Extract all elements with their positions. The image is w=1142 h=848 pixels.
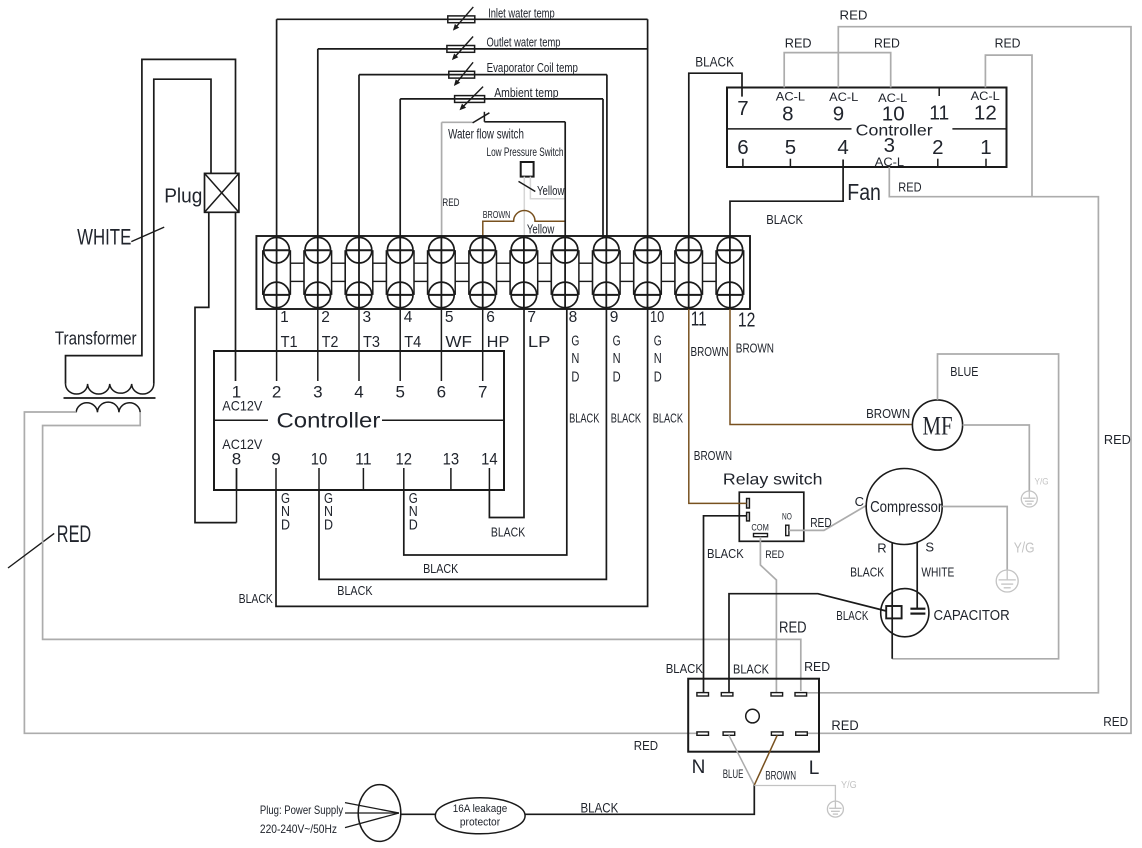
wire controller pin 10 to terminal 9 (black): [319, 309, 606, 579]
wire inner loop: transformer primary right to plug: [154, 79, 211, 384]
wire controller pin 12 to terminal 8 (black): [404, 309, 567, 555]
terminal 5: [428, 236, 456, 309]
wire MF top (blue) loop to capacitor: [892, 354, 1058, 659]
svg-text:G: G: [571, 333, 579, 349]
svg-text:BLACK: BLACK: [766, 212, 803, 227]
svg-text:D: D: [654, 369, 662, 385]
wire U2 pin 8 to pin 10 jumper (red): [784, 53, 891, 88]
link terminal 2-3: [332, 262, 346, 264]
svg-text:AC-L: AC-L: [776, 89, 805, 103]
GND labels on controller pins 9 10 12: [281, 491, 418, 533]
sensor RT1 inlet water temp: [277, 5, 648, 30]
svg-text:BLACK: BLACK: [581, 800, 619, 815]
svg-text:WHITE: WHITE: [921, 564, 954, 579]
ground G3 (power cord): [827, 801, 843, 817]
terminal 4: [386, 236, 414, 309]
svg-text:BROWN: BROWN: [483, 209, 511, 221]
svg-text:N: N: [654, 351, 662, 367]
GND labels under terminals 8 9 10: [571, 333, 661, 385]
power terminal block TB2 (N-L): [688, 679, 819, 779]
wire controller-2 pin 7 to terminal 11 (black): [689, 73, 742, 236]
TB2 bottom pin at 802: [796, 732, 808, 735]
wire terminal 11 to relay coil (brown): [689, 309, 747, 503]
svg-text:N: N: [571, 351, 579, 367]
wire sensor 4 return to terminal 9: [602, 99, 604, 238]
leakage protector F1: [435, 798, 525, 834]
svg-text:protector: protector: [460, 817, 501, 829]
svg-text:AC-L: AC-L: [971, 89, 1000, 103]
compressor M2: [866, 469, 943, 545]
wire capacitor to N-L top pin 2 (black): [729, 594, 886, 693]
relay K1 coil terminal 2: [747, 512, 750, 521]
svg-text:6: 6: [486, 309, 495, 326]
svg-text:Y/G: Y/G: [1014, 540, 1035, 556]
svg-text:G: G: [613, 333, 621, 349]
controller U1 top pin numbers 1-7: [232, 382, 488, 401]
svg-text:3: 3: [884, 134, 895, 157]
svg-text:BLACK: BLACK: [653, 412, 684, 426]
svg-text:T3: T3: [363, 334, 380, 351]
terminal 11: [675, 236, 703, 309]
power supply plug P2: [260, 785, 401, 842]
svg-text:8: 8: [569, 309, 578, 326]
wire sensor returns to terminal 10: [647, 19, 649, 236]
controller U1 bottom pin stubs: [237, 468, 490, 490]
svg-text:BLACK: BLACK: [707, 546, 744, 561]
transformer core: [64, 397, 156, 399]
svg-text:CAPACITOR: CAPACITOR: [934, 607, 1010, 624]
TB2 bottom pin at 729: [723, 732, 735, 735]
svg-text:BLACK: BLACK: [239, 592, 274, 606]
svg-text:T4: T4: [404, 334, 421, 351]
wire relay COM to N-L top pin 3 (red): [760, 537, 776, 693]
wire LP switch lead to terminal 7 (yellow): [523, 177, 525, 237]
svg-text:12: 12: [974, 102, 997, 125]
svg-text:Inlet water temp: Inlet water temp: [488, 5, 555, 20]
svg-text:Plug: Plug: [164, 184, 202, 207]
svg-text:10: 10: [311, 450, 328, 469]
svg-text:10: 10: [882, 103, 905, 126]
svg-text:BLUE: BLUE: [950, 364, 978, 379]
terminal numbers 1-12: [280, 308, 755, 332]
link terminal 3-4: [373, 262, 387, 264]
controller U1 top pin wires from terminals 1-6: [277, 309, 483, 381]
wire U2 pin 12 (red) to AC-L rail: [985, 55, 1032, 197]
link terminal 1-2: [290, 262, 304, 264]
wire U2 pin 3 AC-L (red) to N-L top pin 4: [807, 167, 1099, 693]
svg-text:BLACK: BLACK: [836, 608, 868, 623]
wire controller-2 pin 4 Fan to terminal 12 (black): [730, 160, 843, 237]
svg-text:4: 4: [404, 309, 413, 326]
terminal 9: [593, 236, 621, 309]
svg-text:BROWN: BROWN: [694, 448, 732, 463]
svg-text:WF: WF: [445, 334, 472, 351]
wire LP switch lead to ground line (yellow): [530, 177, 565, 199]
svg-text:9: 9: [833, 103, 844, 126]
svg-text:L: L: [809, 758, 820, 779]
relay K1 coil terminal 1: [747, 499, 750, 509]
svg-text:12: 12: [738, 309, 756, 332]
link terminal 9-10: [620, 262, 634, 264]
TB2 bottom pin at 777: [771, 732, 783, 735]
svg-text:T2: T2: [322, 334, 339, 351]
svg-text:Relay switch: Relay switch: [723, 472, 823, 489]
svg-text:2: 2: [321, 309, 330, 326]
svg-text:10: 10: [650, 309, 665, 326]
svg-text:Compressor: Compressor: [870, 499, 943, 516]
svg-text:Transformer: Transformer: [55, 328, 137, 349]
sensor RT4 ambient temp: [400, 85, 603, 110]
svg-text:RED: RED: [1103, 714, 1128, 729]
svg-text:D: D: [571, 369, 579, 385]
svg-text:12: 12: [396, 450, 413, 469]
svg-text:RED: RED: [785, 35, 812, 50]
svg-text:5: 5: [395, 382, 404, 401]
controller U2 pin ticks: [743, 88, 986, 168]
svg-text:BROWN: BROWN: [691, 345, 729, 359]
svg-text:8: 8: [232, 450, 241, 469]
link terminal 4-5: [414, 262, 428, 264]
svg-text:BLACK: BLACK: [569, 412, 600, 426]
svg-text:11: 11: [355, 450, 372, 469]
wire plug to controller pin 1 (AC12V): [235, 212, 237, 381]
sensor RT2 outlet water temp: [318, 35, 648, 61]
wire controller pin 14 to terminal 7 LP (black): [489, 309, 524, 518]
svg-text:3: 3: [363, 309, 372, 326]
svg-text:AC12V: AC12V: [222, 436, 263, 452]
TB2 top pin at 801: [795, 693, 807, 696]
svg-text:4: 4: [837, 136, 848, 159]
controller U2 top pin numbers: [737, 97, 997, 126]
svg-text:1: 1: [280, 309, 289, 326]
controller U2 box (top right): [727, 88, 1007, 168]
transformer TR1: [55, 328, 156, 413]
capacitor C1: [881, 543, 1010, 659]
svg-text:RED: RED: [1104, 432, 1131, 447]
svg-text:Yellow: Yellow: [527, 221, 555, 236]
svg-text:BLACK: BLACK: [337, 584, 373, 598]
svg-text:S: S: [925, 540, 934, 555]
wire WF terminal 5 lead (red): [441, 122, 443, 236]
svg-text:2: 2: [932, 136, 943, 159]
TB2 bottom pin at 703: [697, 732, 709, 735]
svg-text:BLACK: BLACK: [733, 662, 770, 676]
relay switch K1: [723, 472, 823, 542]
link terminal 8-9: [579, 262, 593, 264]
svg-text:RED: RED: [57, 521, 91, 548]
wire terminal 12 to fan motor MF (brown): [730, 309, 912, 425]
svg-text:Fan: Fan: [847, 179, 881, 205]
wire plug to controller pin 8 (AC12V): [195, 212, 237, 522]
wire TB2 bottom pin 2 blue cord lead: [729, 735, 754, 785]
svg-text:2: 2: [272, 382, 281, 401]
fan motor M1 MF: [912, 400, 962, 450]
wire GND return line to terminal 8 (black): [564, 122, 566, 236]
svg-text:RED: RED: [442, 197, 459, 209]
svg-text:13: 13: [443, 450, 460, 469]
link terminal 10-11: [661, 262, 675, 264]
wire terminal 4 sensor lead: [399, 99, 401, 236]
svg-text:1: 1: [980, 136, 991, 159]
svg-text:R: R: [877, 540, 886, 555]
svg-text:N: N: [692, 757, 706, 778]
svg-text:BLACK: BLACK: [666, 662, 704, 676]
wire TB2 bottom pin 3 brown cord lead: [754, 735, 777, 785]
terminal 6: [469, 236, 497, 309]
svg-text:NO: NO: [782, 512, 792, 523]
wire terminal 2 sensor lead: [317, 49, 319, 236]
wire outer loop: transformer primary left to plug to controller pin 1: [66, 59, 236, 384]
svg-text:RED: RED: [765, 549, 784, 561]
svg-text:Evaporator Coil temp: Evaporator Coil temp: [487, 60, 578, 75]
svg-text:6: 6: [737, 136, 748, 159]
wire cord Y/G to ground: [754, 786, 835, 802]
svg-text:RED: RED: [804, 660, 830, 674]
switch SW1 water flow switch: [442, 112, 566, 142]
plug P1 connector symbol: [164, 173, 239, 212]
wire relay coil 2 to N-L top pin 1 (black): [704, 516, 747, 693]
wire terminal 3 sensor lead: [358, 75, 360, 237]
wire U2 pin 9 (red) right-edge loop to N-L bottom pin 4: [808, 27, 1132, 734]
transformer secondary winding: [76, 402, 140, 412]
svg-text:D: D: [613, 369, 621, 385]
ground G2 (compressor): [996, 570, 1018, 592]
svg-text:7: 7: [737, 97, 748, 120]
svg-text:AC-L: AC-L: [878, 91, 907, 105]
terminal strip TB1 (12 positions): [256, 236, 750, 309]
svg-text:AC12V: AC12V: [222, 397, 263, 413]
wire sensor 3 return to terminal 9: [606, 75, 608, 237]
wire compressor R through capacitor terminal to blue loop (black): [891, 543, 893, 659]
svg-text:Plug: Power Supply: Plug: Power Supply: [260, 803, 343, 817]
svg-text:5: 5: [785, 136, 796, 159]
controller U1 bottom pin numbers 8-14: [232, 450, 498, 469]
svg-text:1: 1: [232, 382, 241, 401]
wire plug to leakage protector: [401, 813, 436, 815]
terminal 7: [510, 236, 538, 309]
wire HP terminal 6 brown jumper with hop over LP wire: [483, 211, 565, 237]
svg-text:5: 5: [445, 309, 454, 326]
svg-text:AC-L: AC-L: [829, 90, 858, 104]
svg-text:MF: MF: [923, 412, 953, 441]
svg-text:Ambient temp: Ambient temp: [494, 85, 558, 100]
svg-text:Yellow: Yellow: [537, 183, 565, 198]
svg-text:Controller: Controller: [277, 409, 381, 433]
terminal 3: [345, 236, 373, 309]
link terminal 11-12: [703, 262, 717, 264]
svg-text:Y/G: Y/G: [841, 779, 857, 791]
svg-text:BLACK: BLACK: [423, 562, 459, 576]
svg-text:BLUE: BLUE: [723, 769, 744, 781]
sensor RT3 evaporator coil temp: [359, 60, 607, 86]
wire transformer secondary left (red) to N-L box bottom pin 1: [24, 412, 698, 733]
svg-text:RED: RED: [810, 515, 832, 530]
svg-text:9: 9: [610, 309, 619, 326]
wire MF right to ground (Y/G): [963, 425, 1030, 491]
svg-text:RED: RED: [898, 180, 921, 195]
svg-text:RED: RED: [874, 35, 900, 50]
svg-text:4: 4: [354, 382, 363, 401]
terminal function labels T1 T2 T3 T4 WF HP LP: [281, 334, 551, 351]
svg-text:RED: RED: [779, 620, 807, 637]
svg-text:RED: RED: [831, 718, 859, 733]
svg-text:11: 11: [929, 102, 949, 125]
svg-text:BLACK: BLACK: [850, 564, 884, 579]
wire compressor S to capacitor (white): [916, 542, 918, 609]
TB2 top pin at 727: [721, 693, 733, 696]
label yellow 1 with leader: [519, 181, 536, 191]
wire transformer secondary right (red) to N-L box top pin 4: [43, 412, 801, 691]
svg-text:WHITE: WHITE: [77, 225, 131, 250]
svg-text:HP: HP: [487, 334, 510, 351]
svg-text:D: D: [324, 517, 333, 533]
svg-text:D: D: [281, 517, 290, 533]
wire controller pin 8 drop: [236, 468, 238, 523]
terminal 2: [304, 236, 332, 309]
svg-text:3: 3: [313, 382, 322, 401]
svg-text:16A leakage: 16A leakage: [453, 803, 507, 815]
wire relay NO to compressor C (red): [789, 506, 866, 531]
svg-text:Y/G: Y/G: [1035, 476, 1049, 487]
controller U2 bottom pin numbers: [737, 134, 992, 159]
wire power cord to leakage protector (black): [525, 785, 754, 814]
svg-text:RED: RED: [840, 7, 868, 22]
svg-text:D: D: [409, 517, 418, 533]
wire terminal 1 sensor lead: [276, 19, 278, 236]
svg-text:N: N: [613, 351, 621, 367]
controller U1 box: [214, 351, 504, 490]
svg-text:Low Pressure Switch: Low Pressure Switch: [487, 145, 564, 159]
svg-text:Outlet water temp: Outlet water temp: [487, 35, 561, 50]
TB2 top pin at 777: [771, 693, 783, 696]
TB2 top pin at 703: [697, 693, 709, 696]
svg-text:RED: RED: [995, 35, 1021, 50]
svg-text:COM: COM: [751, 522, 769, 533]
wire compressor right to ground (Y/G): [942, 507, 1007, 571]
svg-text:220-240V~/50Hz: 220-240V~/50Hz: [260, 822, 337, 836]
link terminal 6-7: [497, 262, 511, 264]
ground G1 (fan motor): [1021, 491, 1037, 507]
svg-text:6: 6: [437, 382, 446, 401]
svg-text:G: G: [654, 333, 662, 349]
svg-text:BLACK: BLACK: [491, 525, 526, 539]
svg-text:RED: RED: [634, 738, 658, 753]
svg-text:9: 9: [271, 450, 280, 469]
terminal 1: [263, 236, 291, 309]
svg-text:8: 8: [782, 103, 793, 126]
svg-text:C: C: [855, 494, 864, 509]
switch SW2 low pressure switch: [487, 145, 564, 176]
svg-text:BROWN: BROWN: [736, 342, 774, 356]
svg-text:7: 7: [527, 309, 536, 326]
svg-text:Water flow switch: Water flow switch: [448, 126, 524, 141]
terminal 8: [551, 236, 579, 309]
wire controller pin 9 to terminal 10 (black): [276, 309, 648, 606]
svg-text:BROWN: BROWN: [765, 770, 796, 782]
svg-text:BLACK: BLACK: [611, 412, 642, 426]
terminal 12: [716, 236, 744, 309]
link terminal 5-6: [455, 262, 469, 264]
svg-text:LP: LP: [528, 334, 551, 351]
svg-text:T1: T1: [281, 334, 298, 351]
terminal 10: [634, 236, 662, 309]
svg-text:14: 14: [481, 450, 498, 469]
svg-text:BLACK: BLACK: [695, 55, 734, 70]
link terminal 7-8: [538, 262, 552, 264]
svg-text:BROWN: BROWN: [866, 406, 910, 421]
svg-text:11: 11: [691, 308, 707, 331]
svg-text:7: 7: [478, 382, 487, 401]
